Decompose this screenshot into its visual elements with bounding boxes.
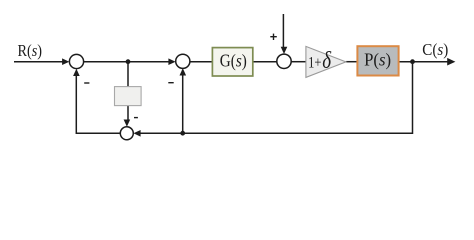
svg-text:G(s): G(s)	[220, 51, 247, 71]
svg-text:1+: 1+	[308, 54, 321, 71]
svg-text:P(s): P(s)	[364, 49, 391, 69]
svg-text:C(s): C(s)	[422, 40, 448, 59]
svg-text:δ: δ	[322, 47, 332, 74]
svg-text:R(s): R(s)	[18, 41, 43, 60]
